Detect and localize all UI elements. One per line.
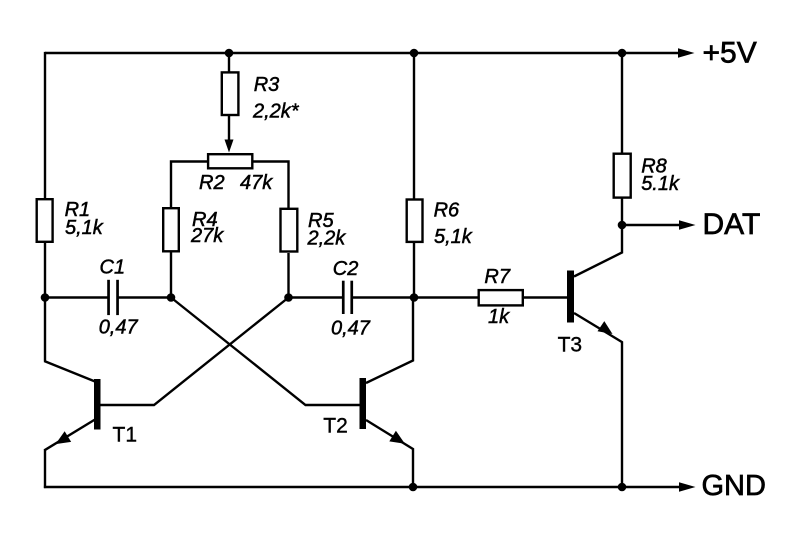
wire: node B2 to C2 (289, 296, 343, 298)
junction dot: +5V rail / R6 (410, 49, 419, 58)
wire: T3 collector diagonal (574, 225, 622, 277)
wire: T1 emitter diagonal (44, 420, 95, 451)
wire: T3 emitter down to GND rail (621, 342, 623, 488)
junction dot: +5V rail / R3 (225, 49, 234, 58)
svg-text:5.1k: 5.1k (641, 173, 680, 195)
svg-text:27k: 27k (190, 225, 224, 247)
wire: T1 emitter down to GND rail (44, 449, 46, 488)
junction dot: GND rail / T3 emitter (618, 483, 627, 492)
resistor R8 body (614, 154, 631, 198)
wire: T2 emitter diagonal (366, 420, 414, 449)
wire: C1 to node B1 (119, 296, 172, 298)
wire: left vertical from +5V rail down to R1 (44, 52, 46, 199)
svg-text:5,1k: 5,1k (434, 226, 473, 248)
svg-text:2,2k: 2,2k (307, 227, 347, 249)
svg-text:C2: C2 (333, 258, 359, 280)
resistor R3 body (222, 72, 239, 115)
arrow: T2 emitter (389, 431, 405, 444)
wire: +5V rail drop to R6 (413, 53, 415, 199)
wire: R2 left lead (171, 162, 207, 209)
resistor R5 body (281, 209, 298, 252)
resistor R6 body (407, 200, 423, 242)
svg-text:+5V: +5V (703, 37, 757, 70)
transistor T3 base bar (567, 271, 574, 323)
transistor T1 base bar (94, 379, 101, 430)
transistor T2 base bar (360, 378, 367, 429)
wire: R1 bottom to left node (44, 242, 46, 299)
potentiometer R2 body (208, 154, 252, 168)
wire: R7 to T3 base (524, 296, 567, 298)
wire: cross-coupling node B2 to T1 base (100, 298, 289, 406)
svg-text:0,47: 0,47 (99, 317, 139, 339)
arrow: T3 emitter (598, 321, 613, 334)
svg-text:GND: GND (702, 470, 766, 502)
wire: left node to C1 (45, 296, 108, 298)
wire: C2 to R7 (353, 296, 478, 298)
junction dot: node B2 (R5/C2) (284, 293, 293, 302)
svg-text:DAT: DAT (703, 208, 761, 241)
wire: T2 emitter down to GND rail (412, 449, 414, 488)
wire: +5V rail drop to R3 (228, 53, 230, 72)
arrow: T1 emitter (56, 431, 72, 444)
wire: R5 bottom to node (287, 253, 289, 298)
junction dot: left node (R1/C1/T1 collector) (41, 293, 50, 302)
svg-text:T1: T1 (113, 423, 138, 446)
wire: GND bottom rail (44, 486, 680, 488)
wire: +5V rail drop to R8 (621, 53, 623, 153)
svg-text:T3: T3 (558, 334, 583, 357)
arrow: DAT terminal (679, 220, 696, 230)
wire: +5V top rail (45, 52, 679, 54)
junction dot: +5V rail / R8 (618, 49, 627, 58)
arrow: R3 wiper onto R2 (225, 140, 234, 153)
wire: R8 bottom to DAT node (621, 199, 623, 227)
junction dot: GND rail / T2 emitter (409, 483, 418, 492)
wire: T3 emitter diagonal (574, 313, 623, 342)
svg-text:R2: R2 (199, 172, 225, 194)
resistor R1 body (37, 199, 53, 242)
svg-text:2,2k*: 2,2k* (252, 101, 300, 123)
svg-text:1k: 1k (488, 306, 510, 328)
arrow: GND terminal (679, 482, 696, 492)
wire: T2 collector diagonal (366, 298, 413, 383)
resistor R4 body (163, 208, 179, 251)
junction dot: node B1 (R4/C1) (167, 293, 176, 302)
wire: R4 bottom to node (170, 252, 172, 298)
wire: R3 bottom to wiper arrow (228, 116, 230, 142)
arrow: +5V terminal (678, 48, 695, 58)
wire: R6 bottom to mid node (413, 243, 415, 298)
capacitor C1 plates (107, 280, 110, 315)
svg-text:T2: T2 (323, 415, 348, 438)
wire: left node down to T1 collector bend (44, 298, 46, 362)
junction dot: DAT node (618, 221, 627, 230)
svg-text:R7: R7 (484, 266, 510, 288)
svg-text:5,1k: 5,1k (65, 217, 104, 239)
svg-text:R6: R6 (434, 199, 460, 221)
junction dot: mid node (R6/C2/R7/T2 collector) (410, 293, 419, 302)
svg-text:C1: C1 (100, 257, 126, 279)
capacitor C2 plates (342, 281, 345, 314)
resistor R7 body (479, 290, 523, 305)
wire: cross-coupling node B1 to T2 base (171, 298, 360, 406)
svg-text:47k: 47k (240, 172, 273, 194)
wire: DAT tap (622, 224, 680, 226)
svg-text:R3: R3 (254, 74, 280, 96)
wire: T1 collector diagonal (44, 361, 95, 382)
wire: R2 right lead (253, 162, 289, 209)
svg-text:0,47: 0,47 (331, 317, 371, 339)
